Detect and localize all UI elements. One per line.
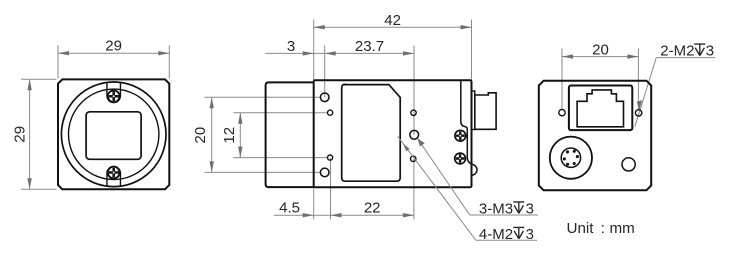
svg-text:3: 3 [287, 38, 295, 55]
svg-text:4.5: 4.5 [279, 200, 300, 217]
svg-text::: : [601, 220, 605, 237]
svg-text:mm: mm [610, 220, 635, 237]
svg-text:3: 3 [526, 226, 534, 243]
svg-text:20: 20 [192, 127, 209, 144]
svg-text:22: 22 [364, 200, 381, 217]
svg-text:3: 3 [526, 200, 534, 217]
svg-text:3-M3: 3-M3 [479, 200, 513, 217]
svg-text:Unit: Unit [567, 220, 595, 237]
svg-text:20: 20 [592, 41, 609, 58]
svg-text:4-M2: 4-M2 [479, 226, 513, 243]
svg-text:42: 42 [384, 12, 401, 29]
svg-text:23.7: 23.7 [355, 38, 384, 55]
svg-text:29: 29 [105, 37, 122, 54]
svg-text:12: 12 [221, 127, 238, 144]
svg-text:29: 29 [11, 126, 28, 143]
